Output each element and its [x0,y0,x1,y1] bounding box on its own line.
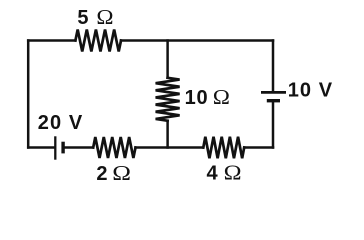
svg-text:Ω: Ω [96,5,113,29]
resistor R 5ohm [75,30,121,52]
svg-text:20 V: 20 V [38,112,84,134]
svg-text:10: 10 [185,87,209,109]
battery 20V short plate [61,142,64,154]
resistor R 2ohm [93,137,135,158]
svg-text:Ω: Ω [224,161,242,184]
svg-text:Ω: Ω [112,162,131,186]
svg-text:10 V: 10 V [288,79,334,101]
battery 10V long plate [261,91,286,94]
battery 20V long plate [54,136,56,159]
svg-text:2: 2 [96,163,107,185]
svg-text:Ω: Ω [213,85,230,109]
wire right side upper [272,41,275,92]
wire middle upper [166,41,169,78]
wire top-left segment [28,39,75,42]
wire top-right segment [121,39,273,42]
resistor R 10ohm [156,78,180,121]
svg-text:5: 5 [77,7,88,29]
wire battery to R2 [65,146,93,149]
wire middle lower [166,121,169,148]
wire right side lower [272,102,275,147]
wire R2 through middle junction to R4 [136,146,204,149]
wire bottom-left to battery [28,146,54,149]
battery 10V short plate [267,99,280,102]
wire R4 to bottom-right corner [244,146,273,149]
resistor R 4ohm [203,137,244,159]
svg-text:4: 4 [207,163,219,185]
wire left side [27,41,30,148]
